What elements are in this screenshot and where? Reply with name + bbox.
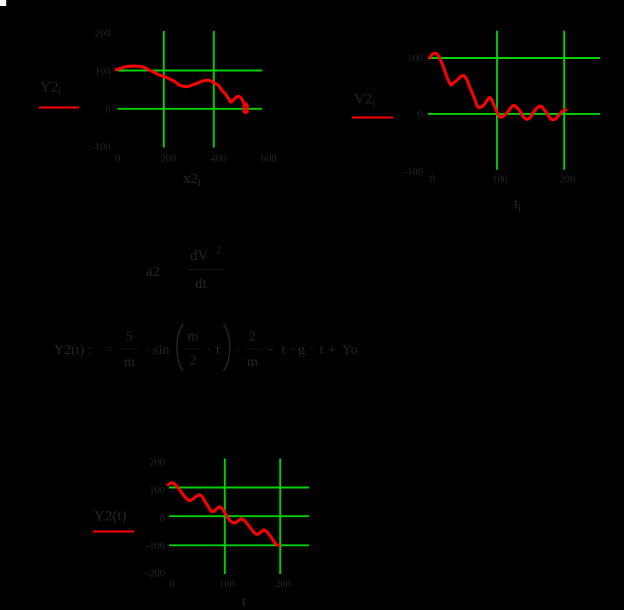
- svg-text:200: 200: [149, 458, 165, 469]
- svg-text:-100: -100: [404, 167, 423, 178]
- svg-text:100: 100: [149, 486, 165, 497]
- svg-text:200: 200: [161, 154, 177, 165]
- svg-text:100: 100: [407, 54, 423, 65]
- svg-text:0: 0: [430, 175, 435, 186]
- svg-text:a2: a2: [146, 264, 160, 280]
- svg-text:200: 200: [560, 175, 576, 186]
- svg-text:Y2i: Y2i: [40, 80, 61, 98]
- svg-text:200: 200: [275, 579, 291, 590]
- svg-text:2: 2: [249, 330, 256, 345]
- svg-text:·: ·: [146, 343, 151, 358]
- svg-text:0: 0: [169, 579, 174, 590]
- svg-text:·: ·: [310, 343, 315, 358]
- svg-text:·: ·: [207, 343, 212, 358]
- svg-text:-200: -200: [146, 569, 165, 580]
- svg-text:−: −: [267, 343, 275, 358]
- svg-text:m: m: [124, 355, 135, 370]
- svg-text:V2i: V2i: [354, 92, 375, 110]
- svg-text:m: m: [188, 330, 199, 345]
- svg-text:Yo: Yo: [342, 343, 358, 358]
- svg-text:t: t: [320, 343, 324, 358]
- svg-text:Y2(t) :: Y2(t) :: [54, 343, 92, 358]
- svg-text:sin: sin: [153, 343, 169, 358]
- svg-text:2: 2: [190, 354, 197, 369]
- svg-text:t: t: [216, 343, 220, 358]
- svg-text:5: 5: [126, 330, 133, 345]
- svg-text:m: m: [247, 355, 258, 370]
- svg-text:0: 0: [418, 110, 423, 121]
- svg-text:0: 0: [115, 154, 120, 165]
- svg-text:0: 0: [105, 105, 110, 116]
- svg-text:dt: dt: [195, 276, 208, 292]
- svg-text:400: 400: [210, 154, 226, 165]
- svg-text:-100: -100: [91, 142, 110, 153]
- svg-text:=: =: [105, 343, 113, 358]
- svg-text:100: 100: [492, 175, 508, 186]
- svg-text:t: t: [282, 343, 286, 358]
- svg-text:200: 200: [95, 29, 111, 40]
- svg-text:-100: -100: [146, 541, 165, 552]
- svg-text:·: ·: [236, 343, 241, 358]
- svg-text:100: 100: [95, 67, 111, 78]
- svg-text:100: 100: [219, 579, 235, 590]
- svg-text:Y2(t): Y2(t): [94, 509, 127, 525]
- svg-text:600: 600: [261, 154, 277, 165]
- svg-text:0: 0: [160, 514, 165, 525]
- svg-text:·: ·: [291, 343, 296, 358]
- svg-text:g: g: [298, 343, 305, 358]
- svg-text:+: +: [329, 343, 337, 358]
